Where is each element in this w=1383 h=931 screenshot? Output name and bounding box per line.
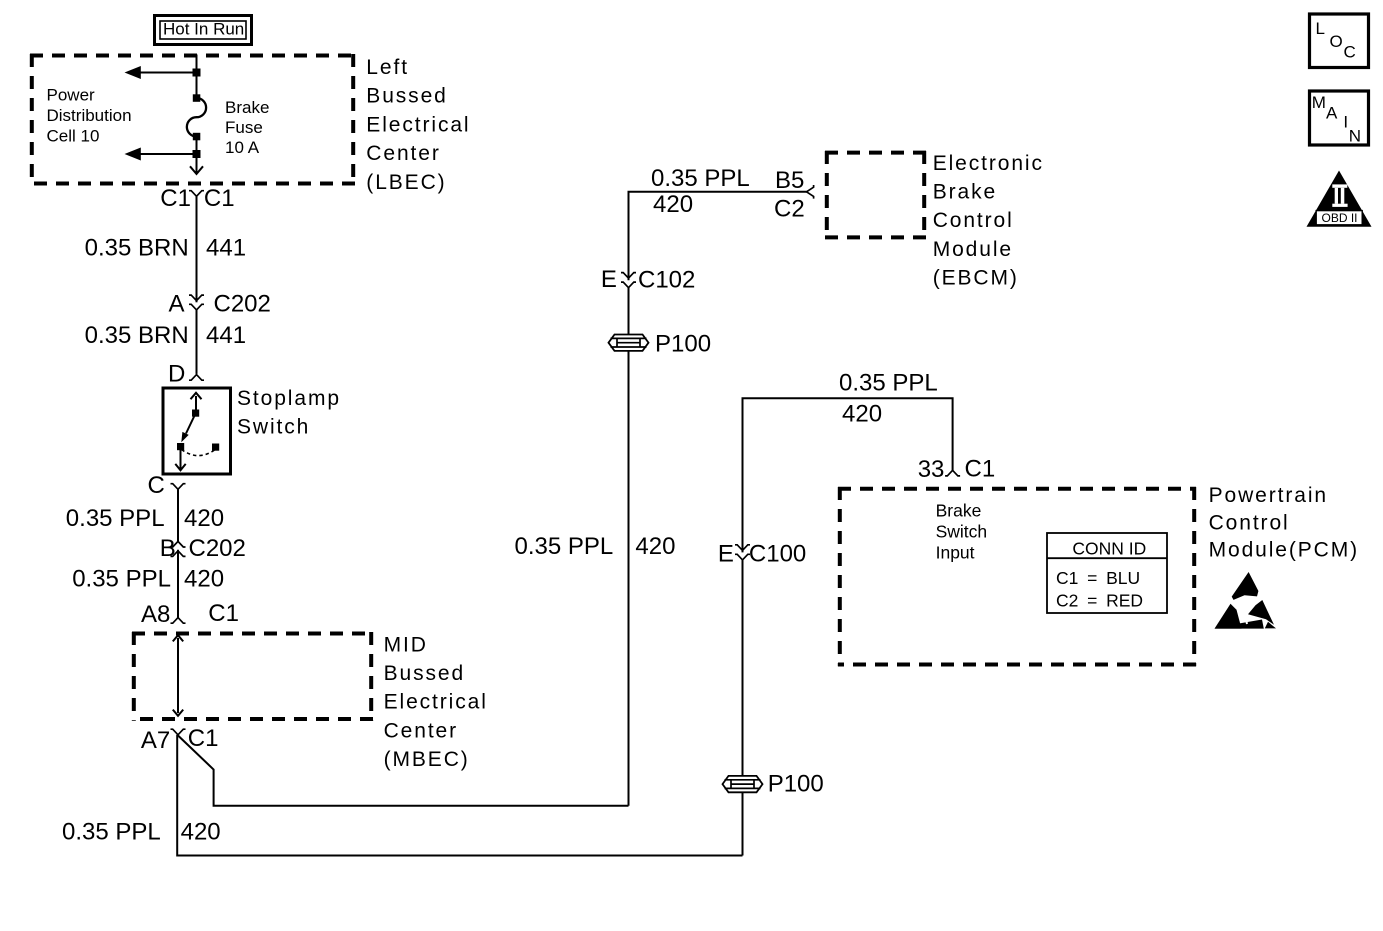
- svg-text:Electronic: Electronic: [933, 152, 1044, 175]
- svg-text:A7: A7: [141, 727, 170, 754]
- svg-text:0.35 PPL: 0.35 PPL: [651, 165, 750, 192]
- svg-text:441: 441: [206, 235, 246, 262]
- svg-text:E: E: [718, 541, 734, 568]
- svg-text:441: 441: [206, 322, 246, 349]
- svg-text:Fuse: Fuse: [225, 118, 263, 137]
- bus arrow left lower: [125, 148, 197, 161]
- Left Bussed Electrical Center (LBEC) dashed box: [30, 54, 355, 185]
- svg-text:B: B: [160, 535, 176, 562]
- svg-text:0.35 PPL: 0.35 PPL: [72, 566, 171, 593]
- connector B C202: [160, 535, 246, 562]
- wire from Hot In Run into LBEC: [196, 55, 198, 99]
- connector E C102: [601, 266, 695, 294]
- svg-text:OBD II: OBD II: [1322, 211, 1358, 225]
- svg-text:Center: Center: [384, 719, 458, 742]
- ESD sensitive device symbol: [1215, 572, 1277, 629]
- connector A C202: [169, 291, 271, 318]
- switch travel dashed arc: [182, 450, 215, 456]
- svg-text:Center: Center: [366, 142, 440, 165]
- svg-text:420: 420: [842, 401, 882, 428]
- LOC legend box: [1310, 14, 1369, 68]
- EBCM name label: [933, 152, 1044, 289]
- wire 420 PPL from switch: [177, 489, 179, 541]
- fuse F: Brake Fuse 10 A element: [187, 94, 206, 140]
- svg-text:0.35 BRN: 0.35 BRN: [85, 322, 189, 349]
- connector C1 (LBEC output): [160, 185, 234, 212]
- wire C102 up and over to EBCM: [629, 192, 807, 280]
- MID Bussed Electrical Center (MBEC) dashed box: [132, 632, 373, 721]
- wire label 0.35 PPL 420 (above B C202): [66, 505, 224, 532]
- terminal A8 C1 of MBEC: [141, 600, 239, 628]
- svg-text:E: E: [601, 266, 617, 293]
- svg-text:A: A: [169, 291, 185, 318]
- svg-text:I: I: [1343, 112, 1348, 131]
- svg-text:Powertrain: Powertrain: [1209, 484, 1328, 507]
- svg-text:C1 = BLU: C1 = BLU: [1056, 568, 1140, 588]
- junction dot upper: [193, 69, 201, 77]
- svg-text:C: C: [148, 472, 165, 499]
- svg-text:Brake: Brake: [936, 501, 982, 521]
- Powertrain Control Module (PCM) dashed box: [838, 487, 1196, 666]
- inline connector P100 (right): [723, 771, 824, 798]
- terminal C of stoplamp switch: [148, 472, 186, 499]
- svg-text:10 A: 10 A: [225, 138, 260, 157]
- svg-text:A: A: [1326, 103, 1338, 122]
- wire riser to EBCM: [628, 351, 630, 805]
- svg-text:Electrical: Electrical: [384, 691, 488, 714]
- svg-text:0.35 PPL: 0.35 PPL: [839, 370, 938, 397]
- svg-text:Module: Module: [933, 238, 1013, 261]
- svg-text:Left: Left: [366, 56, 409, 79]
- CONN ID table: [1047, 533, 1167, 613]
- junction dot lower: [193, 150, 201, 158]
- svg-text:0.35 PPL: 0.35 PPL: [515, 533, 614, 560]
- svg-text:Switch: Switch: [237, 416, 310, 439]
- MAIN legend box: [1310, 91, 1369, 146]
- svg-text:P100: P100: [768, 771, 824, 798]
- svg-text:0.35 BRN: 0.35 BRN: [85, 235, 189, 262]
- switch input arrow up: [191, 393, 202, 412]
- svg-text:C: C: [1344, 43, 1356, 62]
- wire label 0.35 BRN 441 (lower): [85, 322, 246, 349]
- terminal D of stoplamp switch: [168, 360, 204, 387]
- svg-text:M: M: [1312, 93, 1326, 112]
- OBD II legend symbol: [1307, 171, 1372, 227]
- svg-text:Stoplamp: Stoplamp: [237, 387, 341, 410]
- svg-text:C102: C102: [638, 267, 695, 294]
- wire label 0.35 BRN 441 (upper): [85, 235, 246, 262]
- svg-text:MID: MID: [384, 633, 428, 656]
- svg-text:Distribution: Distribution: [47, 106, 132, 125]
- svg-text:B5: B5: [775, 167, 804, 194]
- wire label 0.35 PPL 420 (bottom left): [62, 819, 221, 846]
- MBEC internal bus double arrow: [173, 635, 183, 716]
- svg-text:C2 = RED: C2 = RED: [1056, 590, 1143, 610]
- svg-text:420: 420: [184, 566, 224, 593]
- svg-text:(EBCM): (EBCM): [933, 266, 1019, 289]
- switch left contact dot: [177, 443, 184, 450]
- svg-text:Control: Control: [933, 209, 1014, 232]
- LBEC name label: [366, 56, 470, 194]
- switch pivot contact dot: [192, 410, 199, 417]
- switch output arrow down: [175, 450, 185, 470]
- svg-text:420: 420: [181, 819, 221, 846]
- wire bottom run to C100 column: [177, 855, 742, 857]
- svg-text:P100: P100: [655, 331, 711, 358]
- wire label 0.35 PPL 420 (mid riser): [515, 533, 676, 560]
- PCM name label: [1209, 484, 1359, 562]
- switch movable blade with arrowhead: [181, 415, 195, 442]
- terminal A7 C1 of MBEC: [141, 725, 219, 754]
- switch right contact dot: [212, 444, 219, 451]
- Brake Fuse 10 A label: [225, 98, 269, 157]
- Hot In Run power feed box: [155, 16, 252, 45]
- wire C100 up and over to PCM: [743, 398, 953, 552]
- svg-text:C1: C1: [204, 185, 235, 212]
- Stoplamp Switch label: [237, 387, 341, 439]
- stoplamp switch S1 box: [163, 388, 231, 474]
- down arrowhead at LBEC exit: [190, 166, 203, 174]
- svg-text:C1: C1: [208, 600, 239, 627]
- svg-text:0.35 PPL: 0.35 PPL: [66, 505, 165, 532]
- svg-text:Module(PCM): Module(PCM): [1209, 539, 1359, 562]
- wire fuse to LBEC exit: [196, 137, 198, 174]
- svg-text:C202: C202: [214, 291, 271, 318]
- svg-text:C100: C100: [749, 541, 806, 568]
- inline connector P100 (left): [609, 331, 712, 358]
- svg-text:C1: C1: [965, 456, 996, 483]
- wire label 0.35 PPL 420 (EBCM feed): [651, 165, 750, 218]
- svg-text:CONN ID: CONN ID: [1072, 539, 1146, 559]
- svg-text:Hot In Run: Hot In Run: [163, 20, 244, 39]
- wire 441 BRN upper segment: [196, 196, 198, 302]
- svg-text:(MBEC): (MBEC): [384, 748, 470, 771]
- svg-text:Control: Control: [1209, 511, 1290, 534]
- svg-text:Switch: Switch: [936, 522, 988, 542]
- wire label 0.35 PPL 420 (above A8): [72, 566, 224, 593]
- svg-text:O: O: [1330, 32, 1343, 51]
- svg-text:N: N: [1349, 127, 1361, 146]
- svg-text:L: L: [1316, 19, 1325, 38]
- wire riser to PCM: [742, 793, 744, 856]
- MBEC name label: [384, 633, 488, 771]
- svg-text:A8: A8: [141, 601, 170, 628]
- svg-text:(LBEC): (LBEC): [366, 171, 446, 194]
- Power Distribution Cell 10 label: [47, 85, 132, 145]
- svg-text:Input: Input: [936, 543, 975, 563]
- wire branch diagonal from A7: [178, 736, 629, 806]
- svg-text:Cell 10: Cell 10: [47, 127, 100, 146]
- Brake Switch Input label: [936, 501, 988, 563]
- wire 420 PPL to MBEC: [177, 550, 179, 619]
- svg-text:Brake: Brake: [225, 98, 269, 117]
- svg-text:420: 420: [184, 505, 224, 532]
- svg-text:Brake: Brake: [933, 181, 997, 204]
- svg-text:Electrical: Electrical: [366, 113, 470, 136]
- wire label 0.35 PPL 420 (PCM feed): [839, 370, 938, 428]
- svg-text:0.35 PPL: 0.35 PPL: [62, 819, 161, 846]
- svg-text:C202: C202: [189, 535, 246, 562]
- svg-text:Bussed: Bussed: [366, 85, 447, 108]
- svg-text:C1: C1: [160, 185, 191, 212]
- wire 441 BRN lower segment: [196, 310, 198, 374]
- wire P100 to C100: [742, 560, 744, 776]
- connector E C100: [718, 541, 806, 568]
- Electronic Brake Control Module (EBCM) dashed box: [825, 151, 926, 239]
- svg-text:420: 420: [653, 191, 693, 218]
- svg-text:420: 420: [635, 533, 675, 560]
- svg-text:C2: C2: [774, 196, 805, 223]
- wire 420 PPL down from A7: [176, 735, 178, 857]
- terminal 33 C1 of PCM: [918, 456, 995, 484]
- svg-text:Bussed: Bussed: [384, 662, 465, 685]
- bus arrow left upper: [125, 66, 197, 79]
- wire P100 to C102: [628, 288, 630, 335]
- svg-text:D: D: [168, 360, 185, 387]
- svg-text:Power: Power: [47, 85, 96, 104]
- svg-text:33: 33: [918, 456, 945, 483]
- terminal B5 C2 of EBCM: [774, 167, 814, 223]
